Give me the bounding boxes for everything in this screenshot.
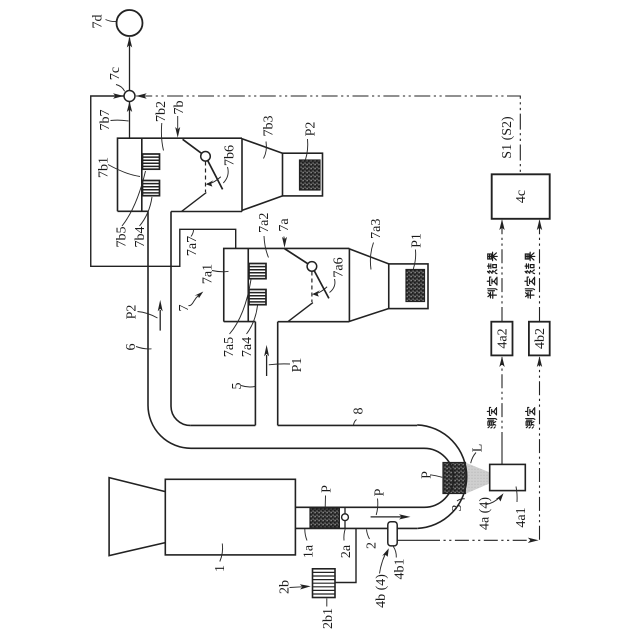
svg-text:P: P bbox=[373, 488, 388, 496]
svg-text:7: 7 bbox=[177, 305, 192, 312]
arrow 4b(4) bbox=[380, 554, 386, 574]
leader 2a bbox=[344, 529, 345, 541]
leader 7a6 bbox=[330, 279, 335, 293]
svg-text:7b6: 7b6 bbox=[223, 145, 238, 166]
leader 7b5 bbox=[122, 171, 146, 226]
separator unit 7b : left column 7b1 bbox=[118, 138, 243, 211]
svg-text:P2: P2 bbox=[124, 305, 139, 320]
leader 7a5 bbox=[230, 280, 252, 335]
svg-text:2b: 2b bbox=[278, 580, 293, 594]
leader P1 pipe bbox=[269, 363, 290, 366]
feed duct 2 bbox=[296, 507, 424, 528]
arrow 2b bbox=[290, 586, 303, 589]
leader 7b3 bbox=[264, 142, 267, 159]
right U-bend inner wall bbox=[424, 448, 454, 507]
particle block P at bend bbox=[443, 463, 466, 494]
svg-text:7a2: 7a2 bbox=[257, 213, 272, 233]
leader 3 bbox=[457, 499, 465, 501]
svg-text:4b2: 4b2 bbox=[533, 328, 548, 349]
svg-text:P1: P1 bbox=[290, 358, 305, 373]
leader 7a3 bbox=[370, 243, 373, 270]
svg-text:L: L bbox=[471, 444, 486, 453]
leader 7a4 bbox=[247, 306, 258, 335]
analyzer box 4a2 bbox=[491, 322, 512, 356]
damper 7a6 bbox=[285, 249, 329, 299]
leader 7a7 bbox=[191, 230, 194, 237]
svg-text:7a3: 7a3 bbox=[369, 219, 384, 239]
svg-text:4b1: 4b1 bbox=[393, 559, 408, 580]
damper 7b6 bbox=[183, 139, 223, 189]
svg-text:7b: 7b bbox=[172, 101, 187, 115]
wire 7c to 7d bbox=[129, 38, 131, 91]
leader 4a1 bbox=[516, 487, 517, 503]
svg-text:P1: P1 bbox=[410, 233, 425, 248]
svg-text:8: 8 bbox=[352, 408, 367, 415]
leader 7a1 bbox=[212, 271, 229, 272]
svg-text:1a: 1a bbox=[302, 544, 317, 558]
outlet cone 7a3 bbox=[349, 249, 388, 322]
judgement box 4c bbox=[492, 174, 550, 219]
splitter wedge in 7a bbox=[288, 303, 313, 322]
leader L bbox=[471, 453, 476, 464]
leader 7b1 bbox=[108, 165, 140, 177]
label hantei-kekka left (judgement result) bbox=[487, 252, 497, 298]
measurement chain 4b1 to 4b2 bbox=[398, 539, 426, 541]
leader 5 bbox=[241, 386, 256, 387]
machine 1 body bbox=[165, 479, 295, 555]
svg-text:1: 1 bbox=[213, 565, 228, 572]
flow arrow P1 in duct 5 bbox=[266, 355, 268, 376]
svg-text:5: 5 bbox=[230, 383, 245, 390]
leader 1 bbox=[220, 544, 223, 562]
result chain 4b2 to 4c bbox=[539, 221, 541, 322]
svg-text:7d: 7d bbox=[91, 15, 106, 29]
leader 7a2 bbox=[264, 236, 269, 258]
svg-text:7a5: 7a5 bbox=[222, 337, 237, 357]
leader 8 bbox=[354, 420, 357, 426]
filter block 7b4 bbox=[143, 181, 160, 196]
leader 7c bbox=[116, 85, 125, 92]
leader 4a(4) arrow bbox=[486, 497, 500, 505]
light source box 4a1 bbox=[490, 464, 526, 490]
leader 2b1 bbox=[326, 599, 328, 607]
svg-text:7b3: 7b3 bbox=[262, 116, 277, 137]
riser duct 5 bbox=[255, 322, 277, 426]
svg-text:7b5: 7b5 bbox=[115, 227, 130, 248]
svg-text:4b (4): 4b (4) bbox=[374, 574, 389, 608]
leader P duct2 bbox=[376, 499, 378, 516]
svg-text:2: 2 bbox=[365, 542, 380, 549]
svg-text:7c: 7c bbox=[108, 67, 123, 80]
outlet block 1a with particles P bbox=[310, 508, 339, 528]
svg-text:4a1: 4a1 bbox=[514, 507, 529, 527]
blower circle 7d bbox=[117, 10, 143, 36]
filter block 7b5 bbox=[143, 154, 160, 169]
leader 7b7 bbox=[111, 119, 129, 122]
svg-text:S1 (S2): S1 (S2) bbox=[500, 116, 515, 159]
leader 7 with arrow bbox=[189, 295, 200, 306]
outlet cone 7b3 bbox=[242, 139, 283, 211]
svg-text:7b4: 7b4 bbox=[133, 227, 148, 248]
leader 1a bbox=[305, 529, 307, 541]
svg-text:6: 6 bbox=[124, 344, 139, 351]
machine 1 horn bbox=[109, 478, 165, 556]
leader P2 outlet bbox=[306, 139, 308, 160]
junction circle 7c bbox=[124, 91, 135, 102]
leader 7d bbox=[106, 20, 117, 22]
leader 7b6 bbox=[223, 167, 228, 183]
leader P 1a bbox=[324, 496, 326, 508]
analyzer box 4b2 bbox=[529, 322, 550, 356]
svg-text:7b7: 7b7 bbox=[98, 110, 113, 131]
return duct 8 bbox=[190, 425, 424, 448]
svg-text:7b1: 7b1 bbox=[97, 157, 112, 178]
svg-text:7a7: 7a7 bbox=[185, 236, 200, 256]
wire 7b1 top to 7c bbox=[129, 102, 131, 138]
svg-text:2b1: 2b1 bbox=[321, 608, 336, 629]
svg-text:4c: 4c bbox=[514, 190, 529, 203]
arrow 7b bbox=[177, 116, 179, 129]
particle box P2 bbox=[300, 160, 321, 190]
svg-text:2a: 2a bbox=[339, 544, 354, 558]
riser duct 6 with left bend bbox=[148, 211, 191, 448]
flow arrow P in duct 2 bbox=[371, 516, 402, 518]
valve 2a bbox=[344, 507, 346, 528]
svg-text:P2: P2 bbox=[304, 122, 319, 137]
arrow 7a bbox=[283, 237, 286, 240]
leader 7b4 bbox=[140, 197, 153, 226]
dash-dot signal line S1(S2) from 4c to 7c bbox=[136, 96, 520, 174]
leader 4b1 bbox=[393, 547, 396, 558]
exhaust line from 7a via left boundary and duct 7a7 bbox=[91, 96, 236, 266]
sensor 4b1 on duct 2 bbox=[388, 522, 397, 546]
svg-text:P: P bbox=[420, 471, 435, 479]
particle box P1 bbox=[406, 270, 425, 302]
sampler block 2b1 bbox=[313, 569, 336, 598]
branch line to sampler 2b bbox=[336, 528, 357, 582]
svg-text:P: P bbox=[320, 485, 335, 493]
splitter wedge in 7b bbox=[182, 193, 207, 212]
chamber 7b2 walls bbox=[171, 138, 242, 211]
svg-text:7a: 7a bbox=[277, 218, 292, 232]
chamber 7a2 walls bbox=[278, 248, 350, 322]
label sokutei right (measure) bbox=[526, 407, 535, 428]
leader 2 bbox=[367, 530, 370, 540]
filter block 7a5 bbox=[249, 264, 266, 279]
label hantei-kekka right (judgement result) bbox=[525, 252, 535, 298]
svg-text:7b2: 7b2 bbox=[154, 101, 169, 122]
leader 6 bbox=[136, 347, 152, 349]
leader P bend bbox=[431, 475, 443, 478]
leader 7b2 bbox=[161, 123, 163, 151]
filter block 7a4 bbox=[249, 290, 266, 305]
flow arrow P2 in duct 6 bbox=[159, 310, 161, 331]
label sokutei left (measure) bbox=[487, 407, 496, 428]
svg-text:7a6: 7a6 bbox=[332, 257, 347, 277]
svg-text:4a2: 4a2 bbox=[495, 328, 510, 348]
svg-text:3: 3 bbox=[450, 505, 465, 512]
leader P1 outlet bbox=[413, 250, 415, 270]
svg-text:7a1: 7a1 bbox=[201, 264, 216, 284]
light cone L bbox=[466, 463, 490, 494]
right U-bend 3 outer wall bbox=[417, 425, 467, 529]
svg-text:7a4: 7a4 bbox=[240, 337, 255, 357]
result chain 4a2 to 4c bbox=[501, 221, 503, 322]
leader P2 pipe bbox=[138, 312, 158, 319]
separator unit 7a : left column 7a1 bbox=[224, 248, 350, 321]
measurement chain 4a1 to 4a2 bbox=[501, 446, 503, 464]
svg-text:4a (4): 4a (4) bbox=[478, 497, 493, 530]
